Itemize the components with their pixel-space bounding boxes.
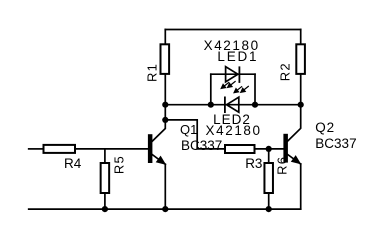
wire LED loop left vertical	[210, 74, 212, 105]
wire R2 top stub	[300, 30, 302, 44]
resistor R1 body	[161, 44, 170, 74]
wire LED loop top branch	[211, 73, 255, 75]
resistor R6 body	[264, 163, 273, 193]
resistor R3 body	[225, 145, 255, 153]
junction node B	[162, 117, 168, 123]
resistor R5 body	[101, 163, 110, 193]
LED1 emission arrow a	[221, 82, 229, 88]
wire Q2 emitter riser	[300, 164, 302, 209]
svg-text:R4: R4	[64, 156, 82, 171]
wire R4 to Q1	[76, 148, 148, 150]
svg-text:R3: R3	[245, 156, 262, 171]
wire node B to R3	[165, 120, 224, 149]
svg-text:LED1: LED1	[217, 49, 258, 64]
svg-text:X42180: X42180	[206, 123, 262, 138]
junction Q1 emitter rail	[162, 206, 168, 212]
wire Q1 emitter diagonal	[152, 155, 165, 165]
resistor R2 body	[296, 44, 305, 74]
wire bottom rail	[29, 208, 301, 210]
svg-text:Q1: Q1	[180, 122, 197, 137]
svg-text:BC337: BC337	[181, 138, 222, 153]
wire R6 top	[268, 149, 270, 162]
transistor Q2 base bar	[283, 134, 288, 163]
junction R6 top	[266, 146, 272, 152]
junction R5 bottom rail	[102, 206, 108, 212]
wire R2 bottom stub	[300, 75, 302, 105]
wire Q1 base	[29, 148, 43, 150]
wire top rail	[165, 29, 300, 31]
wire R6 bottom	[268, 194, 270, 209]
LED2	[225, 97, 239, 114]
wire left rail node A to node B	[164, 105, 166, 120]
transistor Q2 emitter arrowhead	[291, 155, 302, 164]
junction R6 bottom rail	[266, 206, 272, 212]
wire R5 bottom	[104, 194, 106, 209]
LED2 emission arrow a	[234, 86, 242, 92]
svg-text:R6: R6	[275, 156, 290, 175]
resistor R4 body	[44, 145, 76, 153]
LED1 emission arrow b	[228, 81, 236, 87]
junction LED loop left	[208, 102, 214, 108]
wire Q2 emitter diagonal	[288, 155, 301, 165]
svg-text:R1: R1	[144, 63, 159, 82]
wire LED rail	[165, 104, 300, 106]
svg-text:R5: R5	[111, 155, 126, 174]
junction node A	[162, 102, 168, 108]
wire Q1 collector	[152, 120, 165, 141]
wire LED loop right vertical	[254, 74, 256, 105]
wire R1 top stub	[164, 30, 166, 44]
svg-text:BC337: BC337	[315, 136, 356, 151]
wire R3 to Q2 base	[256, 148, 284, 150]
LED2 emission arrow b	[241, 86, 249, 92]
transistor Q1 base bar	[148, 134, 153, 163]
junction LED loop right	[252, 102, 258, 108]
svg-text:R2: R2	[277, 62, 292, 81]
LED1	[226, 66, 240, 83]
wire R5 top	[104, 149, 106, 162]
transistor Q1 emitter arrowhead	[156, 156, 167, 165]
wire R1 bottom stub	[164, 75, 166, 105]
wire Q1 emitter drop	[164, 164, 166, 209]
junction R2 bottom	[298, 102, 304, 108]
wire Q2 collector	[288, 105, 301, 141]
svg-text:Q2: Q2	[315, 120, 335, 135]
